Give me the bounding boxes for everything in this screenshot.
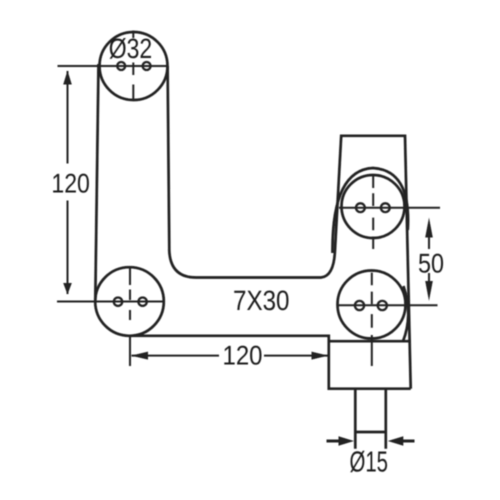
svg-text:120: 120	[51, 168, 90, 198]
svg-text:7X30: 7X30	[233, 285, 290, 316]
svg-text:120: 120	[223, 341, 263, 371]
svg-text:Ø32: Ø32	[109, 33, 153, 64]
svg-text:50: 50	[418, 249, 444, 279]
svg-text:Ø15: Ø15	[350, 447, 389, 479]
